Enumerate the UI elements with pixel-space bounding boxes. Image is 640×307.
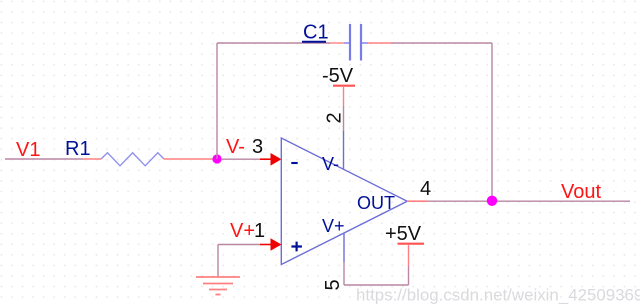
pin left of C1 <box>330 42 344 44</box>
wire to non-inverting input <box>218 244 260 246</box>
pin right of C1 <box>368 42 391 44</box>
svg-text:V-: V- <box>226 136 245 158</box>
capacitor C1 <box>344 24 368 61</box>
power +5V bar <box>398 243 425 245</box>
svg-text:V+: V+ <box>322 216 345 236</box>
svg-text:V-: V- <box>322 154 339 174</box>
resistor R1 <box>101 153 164 166</box>
svg-text:+5V: +5V <box>385 223 422 245</box>
svg-text:V+: V+ <box>230 220 255 242</box>
svg-text:2: 2 <box>324 112 346 123</box>
op-amp minus sign <box>291 162 297 164</box>
wire C1 to right vertical <box>391 42 492 44</box>
node junction B <box>487 196 497 206</box>
wire pin5 horizontal <box>344 284 409 286</box>
power +5V lead <box>408 245 410 266</box>
op-amp pin 2 stub <box>343 131 345 170</box>
svg-text:3: 3 <box>252 136 263 158</box>
svg-text:C1: C1 <box>303 22 329 44</box>
wire V1 net <box>5 158 83 160</box>
ground symbol <box>196 277 240 295</box>
power -5V bar <box>333 85 355 87</box>
pin output stub <box>407 200 428 202</box>
port arrow tail inverting <box>260 158 273 160</box>
pin right of R1 <box>164 158 213 160</box>
svg-text:V1: V1 <box>16 139 40 161</box>
svg-text:R1: R1 <box>65 138 91 160</box>
wire ground vertical <box>217 245 219 278</box>
wire feedback top horizontal <box>217 42 330 44</box>
wire feedback left vertical <box>216 43 218 159</box>
node junction A <box>212 154 221 163</box>
svg-text:https://blog.csdn.net/weixin_4: https://blog.csdn.net/weixin_42509369 <box>356 286 640 305</box>
svg-text:Vout: Vout <box>561 181 601 203</box>
svg-text:5: 5 <box>322 279 344 290</box>
wire pin5 vertical <box>343 262 345 285</box>
pin left of R1 <box>83 158 101 160</box>
svg-text:1: 1 <box>254 220 265 242</box>
power -5V lead <box>343 86 345 106</box>
arrow into inverting input <box>271 153 282 166</box>
wire -5V to pin2 <box>343 106 345 131</box>
arrow into non-inverting input <box>271 238 282 251</box>
wire junction to inverting input <box>221 158 260 160</box>
port arrow tail non-inverting <box>260 244 273 246</box>
op-amp pin 5 stub <box>343 233 345 262</box>
op-amp plus sign <box>291 242 302 252</box>
svg-text:-5V: -5V <box>322 65 354 87</box>
svg-text:OUT: OUT <box>357 193 395 213</box>
wire output <box>428 200 630 202</box>
wire +5V vertical lower <box>408 266 410 285</box>
op-amp U1 triangle <box>281 138 407 265</box>
svg-text:4: 4 <box>420 178 431 200</box>
wire feedback right vertical <box>491 43 493 201</box>
